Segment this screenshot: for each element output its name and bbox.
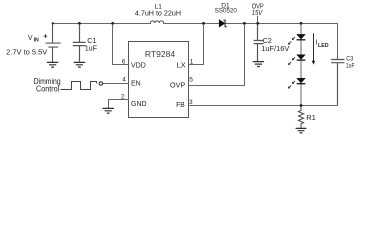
svg-text:OVP: OVP — [170, 82, 186, 89]
svg-text:3: 3 — [189, 99, 193, 106]
wire VDD drop to pin 6 — [113, 24, 129, 65]
ground C1 — [74, 62, 85, 67]
svg-text:GND: GND — [131, 101, 147, 108]
capacitor C3 — [331, 60, 344, 106]
ground GND pin — [103, 108, 114, 113]
wire LED string top — [300, 24, 302, 35]
LED D2 — [288, 34, 305, 44]
node junction VIN rail start — [52, 22, 54, 24]
op-amp U1 RT9284 body — [129, 42, 189, 118]
source VIN battery — [46, 24, 61, 62]
svg-text:4: 4 — [122, 77, 126, 84]
svg-text:C3: C3 — [346, 55, 353, 62]
wire LED2 to LED3 — [300, 61, 302, 78]
wire pin 2 to ground — [109, 100, 129, 109]
svg-text:FB: FB — [176, 102, 185, 109]
node junction diode out — [243, 22, 246, 25]
ground VIN — [47, 62, 58, 67]
node junction LED top — [300, 22, 303, 25]
wire LED1 to LED2 — [300, 40, 302, 54]
svg-text:1uF: 1uF — [346, 62, 355, 69]
wire PWM waveform — [60, 82, 96, 90]
svg-text:IN: IN — [34, 38, 39, 44]
LED D3 — [288, 55, 305, 65]
wire pin 1 LX up to rail — [189, 24, 204, 65]
svg-text:4.7uH to 22uH: 4.7uH to 22uH — [135, 8, 181, 17]
wire EN circle to pin 4 — [103, 83, 129, 85]
node junction C1 — [78, 22, 81, 25]
svg-text:RT9284: RT9284 — [145, 49, 176, 59]
svg-text:1uF/16V: 1uF/16V — [261, 44, 289, 53]
node junction VDD drop — [111, 22, 114, 25]
wire top rail VIN to L1 — [53, 23, 151, 25]
svg-text:Control: Control — [36, 85, 59, 94]
wire OVP label to rail — [257, 16, 259, 24]
node junction OVP/C2 — [256, 22, 259, 25]
svg-text:1uF: 1uF — [85, 43, 98, 52]
capacitor C2 — [254, 24, 264, 62]
svg-text:LX: LX — [177, 62, 186, 69]
svg-text:+: + — [43, 31, 48, 40]
ground R1 — [296, 128, 307, 133]
wire pin 3 FB net — [189, 105, 338, 107]
LED D4 — [288, 78, 305, 88]
svg-text:2.7V to 5.5V: 2.7V to 5.5V — [6, 47, 47, 56]
node junction FB/LED/R1 — [300, 104, 303, 107]
diode D1 — [219, 20, 225, 27]
inductor L1 — [150, 21, 163, 24]
svg-text:6: 6 — [122, 59, 126, 66]
svg-text:R1: R1 — [306, 113, 316, 122]
node EN terminal circle — [99, 82, 102, 85]
resistor R1 — [298, 106, 303, 128]
svg-text:LED: LED — [318, 43, 329, 49]
svg-text:VDD: VDD — [131, 62, 146, 69]
svg-text:SS0520: SS0520 — [215, 8, 237, 15]
svg-text:EN: EN — [131, 80, 141, 87]
wire pin 5 OVP up to rail — [189, 24, 245, 86]
node junction LX — [202, 22, 205, 25]
wire LED3 to FB node — [300, 84, 302, 105]
capacitor C1 — [73, 24, 86, 62]
svg-text:15V: 15V — [252, 8, 263, 17]
current arrow ILED — [313, 33, 315, 62]
ground C2 — [253, 62, 264, 67]
wire D1 to output corner and down to C3 — [226, 24, 338, 60]
svg-text:V: V — [28, 35, 33, 42]
svg-text:5: 5 — [189, 77, 193, 84]
wire L1 to D1 — [164, 23, 220, 25]
